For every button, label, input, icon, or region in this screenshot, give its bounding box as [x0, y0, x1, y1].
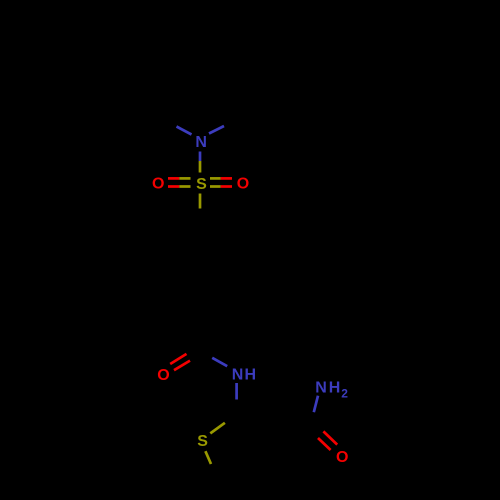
- wire: S=O right double bond red halves: [221, 177, 232, 180]
- wire: carboxamide C=O red halves: [323, 431, 337, 444]
- wire: amide NH to thiophene C2 blue half: [235, 383, 238, 400]
- wire: sulfonyl S to benzene C1 yellow half: [199, 194, 202, 209]
- svg-text:O: O: [152, 176, 164, 193]
- wire: piperidine N-C2 half-bond upper-left: [177, 127, 192, 135]
- wire: N-S bond yellow half: [199, 161, 202, 173]
- wire: carbonyl C to amide NH blue half: [212, 358, 227, 366]
- wire: S=O left double bond red halves: [168, 177, 179, 180]
- svg-text:N: N: [195, 134, 207, 151]
- wire: S=O left double bond yellow halves: [179, 177, 190, 180]
- svg-text:N: N: [232, 366, 244, 383]
- wire: thiophene S-C5 yellow half: [205, 451, 211, 464]
- svg-text:O: O: [237, 176, 249, 193]
- wire: thiophene S-C2 yellow half: [210, 423, 225, 434]
- svg-text:O: O: [157, 367, 169, 384]
- svg-text:N: N: [315, 379, 327, 396]
- wire: piperidine N-C6 half-bond upper-right: [209, 126, 224, 134]
- svg-text:2: 2: [341, 386, 348, 400]
- wire: benzamide C=O red halves: [170, 354, 186, 364]
- wire: carboxamide NH2-C blue half: [314, 396, 318, 413]
- svg-text:H: H: [329, 379, 341, 396]
- svg-text:H: H: [245, 366, 257, 383]
- svg-text:S: S: [197, 433, 208, 450]
- svg-text:S: S: [196, 176, 207, 193]
- svg-text:O: O: [336, 449, 348, 466]
- wire: S=O right double bond yellow halves: [210, 177, 221, 180]
- wire: N-S bond blue half: [199, 152, 202, 162]
